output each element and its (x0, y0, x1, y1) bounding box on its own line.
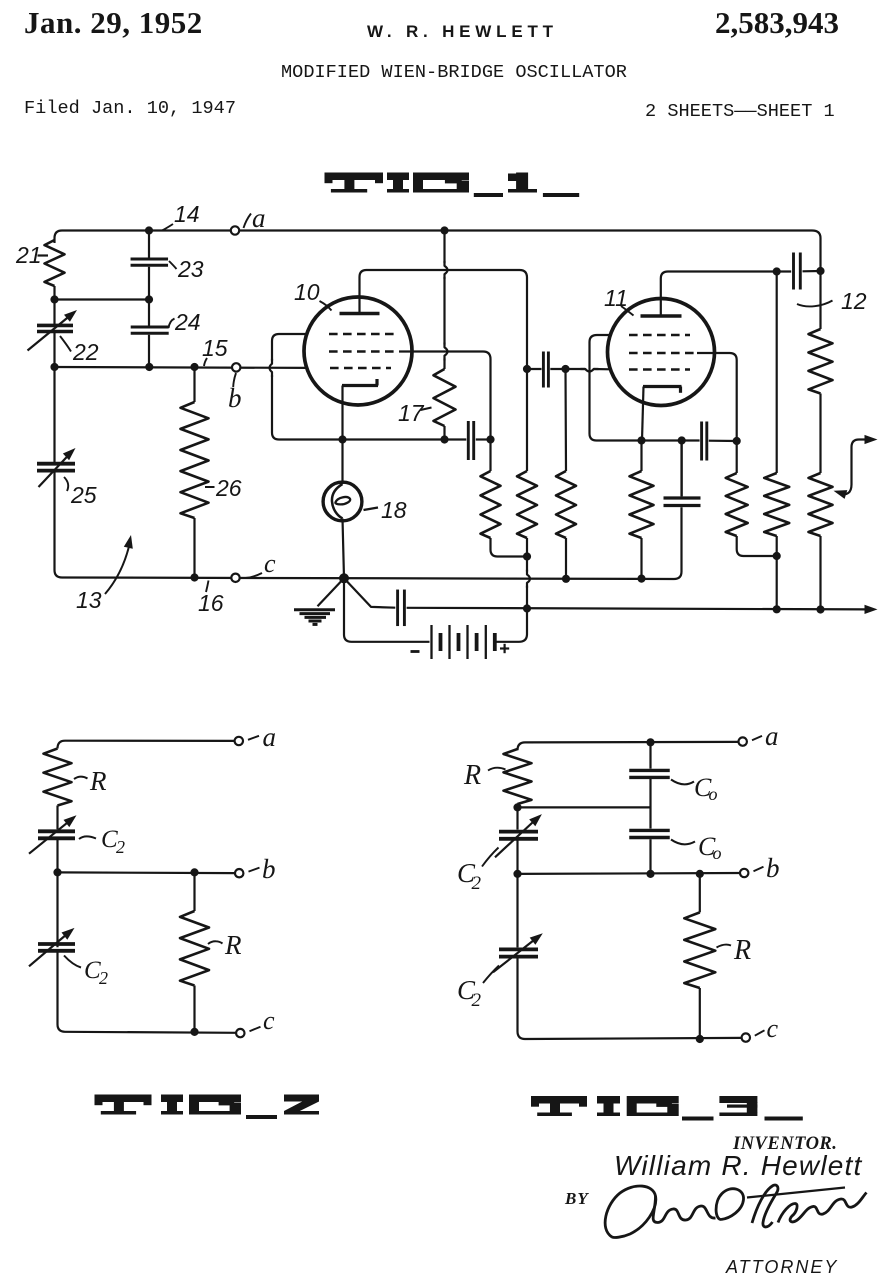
svg-text:W. R. HEWLETT: W. R. HEWLETT (367, 22, 558, 41)
svg-text:b: b (766, 853, 780, 883)
svg-text:2: 2 (116, 837, 125, 857)
svg-text:R: R (463, 760, 481, 791)
svg-text:23: 23 (177, 256, 204, 282)
svg-text:ATTORNEY: ATTORNEY (725, 1257, 838, 1277)
svg-text:b: b (262, 854, 276, 884)
svg-text:William R. Hewlett: William R. Hewlett (614, 1150, 863, 1181)
svg-text:a: a (252, 203, 266, 233)
svg-text:R: R (224, 930, 242, 960)
svg-text:24: 24 (174, 309, 201, 335)
svg-text:2: 2 (472, 990, 482, 1011)
svg-text:o: o (709, 784, 718, 804)
svg-text:26: 26 (215, 475, 242, 501)
svg-text:12: 12 (841, 288, 867, 314)
svg-text:a: a (263, 722, 277, 752)
svg-text:2 SHEETS——SHEET 1: 2 SHEETS——SHEET 1 (645, 101, 835, 122)
svg-text:17: 17 (398, 400, 425, 426)
svg-text:o: o (713, 843, 722, 863)
svg-text:R: R (733, 935, 751, 966)
svg-text:Filed Jan. 10, 1947: Filed Jan. 10, 1947 (24, 98, 236, 119)
svg-text:Jan. 29, 1952: Jan. 29, 1952 (24, 5, 203, 40)
svg-text:10: 10 (294, 279, 320, 305)
svg-text:13: 13 (76, 587, 102, 613)
svg-text:18: 18 (381, 497, 407, 523)
svg-text:21: 21 (15, 242, 42, 268)
svg-text:a: a (765, 721, 779, 751)
svg-text:b: b (228, 383, 242, 413)
svg-text:c: c (767, 1014, 779, 1043)
svg-text:22: 22 (72, 339, 99, 365)
svg-text:c: c (263, 1006, 275, 1035)
svg-text:2,583,943: 2,583,943 (715, 5, 839, 40)
svg-text:2: 2 (99, 968, 108, 988)
svg-text:2: 2 (472, 873, 482, 894)
svg-text:11: 11 (604, 285, 628, 311)
svg-text:R: R (89, 766, 107, 796)
svg-text:15: 15 (202, 335, 228, 361)
svg-text:BY: BY (564, 1189, 589, 1208)
svg-text:25: 25 (70, 482, 97, 508)
svg-text:c: c (264, 549, 276, 578)
svg-text:16: 16 (198, 590, 224, 616)
svg-text:MODIFIED WIEN-BRIDGE OSCILLATO: MODIFIED WIEN-BRIDGE OSCILLATOR (281, 62, 627, 83)
svg-text:14: 14 (174, 201, 200, 227)
